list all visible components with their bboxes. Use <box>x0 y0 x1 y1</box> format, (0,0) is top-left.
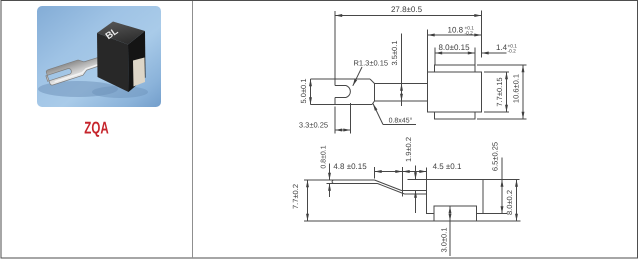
svg-text:3.0±0.1: 3.0±0.1 <box>439 228 448 253</box>
svg-text:0.8±0.1: 0.8±0.1 <box>320 145 327 168</box>
svg-text:8.0±0.2: 8.0±0.2 <box>505 190 514 215</box>
svg-text:3.3±0.25: 3.3±0.25 <box>299 121 328 130</box>
svg-text:7.7±0.15: 7.7±0.15 <box>495 77 504 106</box>
svg-text:ZQA: ZQA <box>84 119 108 138</box>
svg-text:10.8: 10.8 <box>448 26 464 35</box>
svg-text:3.5±0.1: 3.5±0.1 <box>390 41 399 66</box>
svg-text:27.8±0.5: 27.8±0.5 <box>391 5 423 14</box>
svg-text:8.0±0.15: 8.0±0.15 <box>438 43 470 52</box>
svg-text:0.8x45°: 0.8x45° <box>389 118 413 125</box>
svg-text:7.7±0.2: 7.7±0.2 <box>291 184 300 209</box>
svg-text:4.5 ±0.1: 4.5 ±0.1 <box>433 162 462 171</box>
svg-text:-0.2: -0.2 <box>508 49 517 55</box>
svg-text:1.4: 1.4 <box>496 43 508 52</box>
svg-text:-0.2: -0.2 <box>465 31 474 37</box>
svg-text:6.5±0.25: 6.5±0.25 <box>490 142 499 171</box>
svg-text:R1.3±0.15: R1.3±0.15 <box>354 59 389 68</box>
svg-text:1.9±0.2: 1.9±0.2 <box>404 137 413 162</box>
svg-text:4.8 ±0.15: 4.8 ±0.15 <box>333 162 367 171</box>
svg-text:10.6±0.1: 10.6±0.1 <box>511 74 520 103</box>
svg-text:5.0±0.1: 5.0±0.1 <box>299 79 308 104</box>
